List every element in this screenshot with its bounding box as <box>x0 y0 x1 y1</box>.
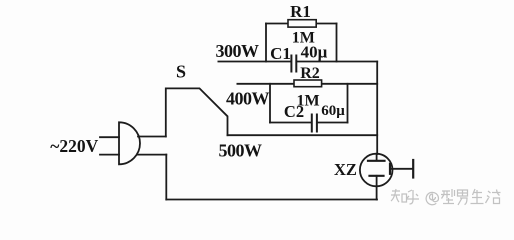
tube XZ <box>360 154 393 187</box>
tube anode lead <box>376 154 378 160</box>
wire C2 stub left <box>269 84 271 123</box>
wire plug bottom <box>137 154 166 156</box>
capacitor C2 <box>312 115 317 132</box>
wire plug top to switch riser <box>138 136 166 138</box>
wire 400W line <box>237 83 377 85</box>
svg-text:R1: R1 <box>290 2 311 21</box>
svg-text:1M: 1M <box>292 30 315 47</box>
tube grid bar <box>389 164 391 174</box>
svg-text:500W: 500W <box>219 141 263 161</box>
char at <box>426 192 438 204</box>
wire R1 stub left <box>265 24 267 62</box>
wire top rail left <box>218 61 290 63</box>
char huo <box>486 190 501 204</box>
svg-text:C2: C2 <box>284 102 304 121</box>
plug body <box>119 122 140 164</box>
char zhi <box>391 189 407 202</box>
wire left drop <box>165 155 167 200</box>
svg-text:C1: C1 <box>270 44 291 63</box>
resistor R1 <box>288 20 316 27</box>
wire bottom rail <box>166 199 377 201</box>
switch S <box>166 88 228 136</box>
char nan <box>458 190 468 205</box>
wire C2 stub right <box>347 84 349 123</box>
char xing <box>441 189 455 204</box>
wire 500W line <box>228 134 378 136</box>
svg-text:S: S <box>176 62 186 82</box>
wire top rail right <box>297 61 377 63</box>
svg-text:R2: R2 <box>300 65 320 82</box>
tube anode plate <box>368 160 385 162</box>
svg-text:XZ: XZ <box>334 160 357 179</box>
tube grid lead <box>390 168 413 170</box>
wire right vertical <box>376 62 378 155</box>
wire R1 stub right <box>336 24 338 62</box>
plug pin bottom <box>100 154 119 156</box>
svg-text:60μ: 60μ <box>321 103 345 119</box>
tube cathode plate <box>370 175 384 177</box>
tube cathode lead <box>376 176 378 200</box>
svg-text:400W: 400W <box>226 89 270 109</box>
watermark zhihu <box>391 189 501 205</box>
svg-text:300W: 300W <box>216 41 260 61</box>
wire C2 branch right <box>318 122 348 124</box>
plug pin top <box>100 136 119 138</box>
char hu <box>406 190 419 204</box>
capacitor C1 <box>291 56 296 72</box>
tube grid terminal <box>412 160 414 178</box>
resistor R2 <box>294 80 322 87</box>
wire R1 branch <box>266 23 337 25</box>
char sheng <box>471 189 484 204</box>
wire C2 branch left <box>270 122 311 124</box>
svg-text:~220V: ~220V <box>50 136 98 156</box>
